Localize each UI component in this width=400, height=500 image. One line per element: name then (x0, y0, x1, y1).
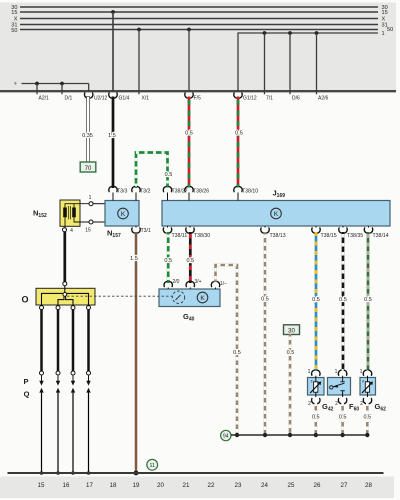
wire drop 7/1 (264, 33, 266, 94)
svg-text:2: 2 (360, 401, 363, 407)
svg-text:U2/12: U2/12 (94, 95, 108, 101)
bus line 50 (20, 29, 378, 31)
K symbol in N157 (118, 208, 129, 219)
svg-text:D/1: D/1 (65, 95, 73, 101)
top relay panel (0, 3, 396, 92)
svg-text:K: K (200, 295, 205, 302)
K symbol in J169 (271, 208, 282, 219)
node on bus 1 (288, 31, 292, 35)
ground nodes (40, 471, 44, 475)
connector G62/1 (363, 370, 372, 375)
connector T38/11 (163, 228, 172, 233)
svg-text:21: 21 (183, 482, 190, 489)
wire red/green G1/12 to T38/10 (237, 97, 240, 188)
wire green/white T38/11 to G40 2/0 (167, 232, 170, 283)
svg-text:15: 15 (38, 482, 45, 489)
distributor input terminal (63, 282, 67, 286)
node on 94 bus (235, 433, 239, 437)
svg-text:T38/13: T38/13 (270, 233, 286, 239)
connector T38/13 (261, 228, 270, 233)
svg-text:T38/15: T38/15 (321, 233, 337, 239)
wire drop A2/6 (316, 33, 318, 94)
svg-text:1.5: 1.5 (108, 133, 116, 139)
svg-text:0.35: 0.35 (82, 133, 93, 139)
svg-text:7/1: 7/1 (266, 95, 273, 101)
node on bus 15 (111, 10, 115, 14)
temperature sensor G62 (360, 378, 376, 396)
connector G40 3/+ (186, 282, 195, 287)
svg-text:T38/11: T38/11 (172, 233, 188, 239)
wire drop F/5 (188, 30, 190, 93)
throttle switch F60 (328, 378, 351, 396)
connector G42/1 (312, 370, 321, 375)
bus line 31 (20, 24, 378, 26)
spark plug connectors P (39, 371, 90, 386)
svg-text:30: 30 (288, 328, 296, 335)
wire brown/white G62/2 to 94 bus (366, 403, 369, 433)
wire drop D/1 (61, 84, 63, 95)
bottom track band (0, 477, 394, 499)
bus line 15 (20, 11, 378, 13)
wire red/green F/5 to T38/26 (188, 97, 191, 188)
bus labels left (11, 5, 18, 34)
node on bus 1 (263, 31, 267, 35)
panel connector F/5 (185, 93, 194, 98)
wire black G1/4 to T3/3 (112, 97, 115, 189)
svg-text:K: K (121, 211, 126, 218)
svg-text:3/+: 3/+ (195, 279, 202, 285)
node on s line (35, 82, 39, 86)
connector G40 1/- (211, 282, 220, 287)
node on bus 50 (137, 28, 141, 32)
connector G40 2/0 (164, 282, 173, 287)
svg-text:0.5: 0.5 (235, 131, 243, 137)
junction box 30 (284, 325, 300, 335)
svg-text:0.5: 0.5 (363, 415, 371, 421)
svg-text:D/6: D/6 (292, 95, 300, 101)
node on bus 50 (187, 28, 191, 32)
connector F60/1 (338, 370, 347, 375)
wire blue/yellow T38/15 to G42 (315, 232, 318, 371)
svg-text:16: 16 (63, 482, 70, 489)
wire black/red T38/30 to G40 3/+ (189, 232, 192, 283)
svg-text:50: 50 (11, 28, 17, 34)
terminal 1 of N152 (89, 202, 93, 206)
connector T3/2 (132, 187, 141, 192)
svg-text:T3/2: T3/2 (140, 189, 150, 195)
K symbol in G40 (197, 292, 208, 303)
svg-text:19: 19 (133, 482, 140, 489)
wire brown/white T38/13 to 94 bus (264, 232, 267, 433)
svg-text:Q: Q (24, 390, 30, 399)
connector T38/27 (163, 187, 172, 192)
svg-text:23: 23 (235, 482, 242, 489)
panel connector labels (39, 95, 329, 101)
connector T38/15 (312, 228, 321, 233)
sub-bus line s (22, 83, 89, 85)
ground node (134, 471, 139, 476)
svg-text:27: 27 (341, 482, 348, 489)
temperature sensor G42 (308, 378, 325, 396)
svg-text:A2/1: A2/1 (39, 95, 50, 101)
svg-text:T38/30: T38/30 (194, 233, 210, 239)
connector T3/1 (132, 228, 141, 233)
sender symbol in G40 (172, 291, 184, 303)
bus line X (20, 18, 378, 20)
wire brown/white G40 1/- to node 94 bus (216, 265, 238, 433)
svg-text:1: 1 (382, 31, 385, 37)
wire drop X/1 (138, 30, 140, 95)
panel connector U2/12 (84, 93, 93, 98)
svg-text:0.5: 0.5 (312, 297, 320, 303)
svg-text:0.5: 0.5 (339, 415, 347, 421)
svg-text:A2/6: A2/6 (318, 95, 329, 101)
hall sender G40 (159, 289, 220, 307)
svg-text:ϑ: ϑ (311, 380, 313, 384)
connector F60/2 (338, 399, 347, 404)
svg-text:1: 1 (89, 195, 92, 201)
svg-text:K: K (274, 211, 279, 218)
connector T38/35 (339, 228, 348, 233)
svg-text:1.5: 1.5 (130, 256, 138, 262)
svg-text:0.5: 0.5 (233, 350, 241, 356)
junction box 70 (80, 162, 96, 172)
node on 94 bus (314, 433, 318, 437)
distributor output terminals (40, 306, 44, 310)
wire drop D/6 (289, 33, 291, 94)
svg-text:0.5: 0.5 (261, 297, 269, 303)
svg-text:2: 2 (335, 401, 338, 407)
connector T38/14 (364, 228, 373, 233)
svg-text:28: 28 (365, 482, 372, 489)
connector G42/2 (312, 399, 321, 404)
svg-text:ϑ: ϑ (362, 380, 364, 384)
svg-text:1: 1 (360, 369, 363, 375)
svg-text:0.5: 0.5 (339, 297, 347, 303)
svg-text:0.5: 0.5 (287, 350, 295, 356)
svg-text:G1/4: G1/4 (119, 95, 130, 101)
spark plug wires (42, 310, 89, 371)
svg-text:94: 94 (223, 434, 229, 440)
svg-text:18: 18 (110, 482, 117, 489)
svg-text:T3/3: T3/3 (117, 189, 127, 195)
node on 94 bus (365, 433, 369, 437)
svg-text:0.5: 0.5 (165, 172, 173, 178)
TCI control unit N157 (105, 201, 139, 227)
svg-text:0.5: 0.5 (364, 297, 372, 303)
ignition distributor O (36, 286, 95, 306)
wire green/white bridge T3/2 to T38/27 (136, 153, 168, 189)
wire green/gray T38/14 to G62 (367, 232, 370, 371)
svg-text:0.5: 0.5 (186, 258, 194, 264)
svg-text:T38/26: T38/26 (193, 189, 209, 195)
node on 94 bus (340, 433, 344, 437)
track numbers (38, 482, 373, 489)
svg-text:1: 1 (335, 369, 338, 375)
svg-text:11: 11 (150, 463, 155, 469)
svg-text:1/−: 1/− (220, 281, 227, 287)
node on s line (60, 82, 64, 86)
svg-text:T3/1: T3/1 (141, 228, 151, 234)
svg-text:T38/14: T38/14 (373, 233, 389, 239)
wire drop U2/12 (88, 84, 90, 93)
svg-text:22: 22 (208, 482, 215, 489)
wire black terminal4 to distributor (63, 232, 66, 282)
svg-text:2: 2 (308, 401, 311, 407)
terminal 4 of N152 (63, 228, 67, 232)
svg-text:4: 4 (70, 228, 73, 234)
svg-text:0.5: 0.5 (164, 258, 172, 264)
connector T3/3 (109, 187, 118, 192)
svg-text:20: 20 (157, 482, 164, 489)
svg-text:T38/35: T38/35 (347, 233, 363, 239)
svg-text:T38/10: T38/10 (242, 189, 258, 195)
svg-text:0.5: 0.5 (185, 131, 193, 137)
wire terminal15 to N157 (93, 221, 105, 223)
ground rail (8, 472, 384, 474)
connector T38/10 (234, 187, 243, 192)
svg-text:15: 15 (382, 10, 388, 16)
wire 94 bus (231, 434, 367, 436)
wire drop A2/1 (36, 84, 38, 95)
dashed drive link O to G40 (67, 295, 172, 297)
bus labels right (382, 5, 394, 37)
svg-text:24: 24 (261, 482, 268, 489)
terminal 15 of N152 (89, 220, 93, 224)
node on 94 bus (263, 433, 267, 437)
svg-text:70: 70 (85, 166, 92, 172)
connector G62/2 (363, 399, 372, 404)
wire brown/white G42/2 to 94 bus (314, 403, 317, 433)
svg-text:1: 1 (308, 369, 311, 375)
connector T38/30 (186, 228, 195, 233)
node on 94 bus (288, 433, 292, 437)
wire terminal1 to N157 (93, 203, 105, 205)
control unit J169 (162, 201, 390, 227)
panel connector G1/4 (109, 93, 118, 98)
ground point 11 (147, 459, 158, 470)
ignition transformer N152 (60, 200, 89, 228)
svg-text:15: 15 (11, 10, 17, 16)
svg-text:50: 50 (387, 27, 393, 33)
connector T38/26 (185, 187, 194, 192)
svg-text:F/5: F/5 (194, 95, 201, 101)
svg-text:2/0: 2/0 (173, 279, 180, 285)
wire black/white T38/35 to F60 (342, 232, 345, 371)
wire white U2/12 to junction 70 (87, 97, 90, 163)
svg-text:P: P (23, 377, 28, 386)
svg-text:0.5: 0.5 (312, 415, 320, 421)
svg-text:O: O (22, 295, 29, 305)
svg-text:X/1: X/1 (142, 95, 150, 101)
panel connector G1/12 (234, 93, 243, 98)
bus line 30 (20, 6, 378, 8)
svg-text:25: 25 (288, 482, 295, 489)
spark plugs Q (39, 388, 90, 473)
top panel bottom border (0, 90, 396, 92)
connection point 94 (221, 430, 231, 440)
wire brown T3/1 to ground (135, 232, 138, 473)
wire brown/white F60/2 to 94 bus (341, 403, 344, 433)
bus line 1 (238, 33, 378, 92)
svg-text:17: 17 (86, 482, 93, 489)
node on bus 1 (315, 31, 319, 35)
wire brown/white junction 30 to 94 bus (289, 334, 292, 433)
wire drop G1/4 (112, 12, 114, 92)
svg-text:G1/12: G1/12 (243, 95, 257, 101)
svg-text:26: 26 (314, 482, 321, 489)
svg-text:15: 15 (85, 228, 91, 234)
